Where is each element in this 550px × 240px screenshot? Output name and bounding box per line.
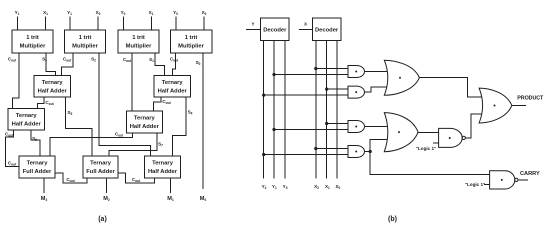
nand gate G8	[439, 128, 466, 147]
wire U6 Cout to U8	[154, 97, 162, 111]
label Cout at U9 Cin	[8, 161, 17, 167]
wire G2 out to G5	[365, 87, 390, 92]
decoder U12	[261, 18, 289, 41]
wire bus X2	[315, 41, 317, 179]
wire U1 Cout to U7	[12, 53, 19, 109]
svg-text:Y0: Y0	[121, 10, 126, 16]
wire Y2 tap to G4	[264, 154, 348, 156]
svg-text:X2: X2	[314, 184, 319, 190]
label M1	[167, 196, 174, 202]
svg-text:S2: S2	[91, 57, 96, 63]
svg-text:(a): (a)	[98, 216, 107, 223]
svg-text:Ternary: Ternary	[134, 116, 156, 122]
label S5	[67, 110, 72, 116]
junction on Y2 lower	[262, 153, 265, 156]
wire Y1 to U1	[17, 17, 19, 31]
junction on X1	[325, 88, 328, 91]
1 trit multiplier U3	[118, 30, 159, 53]
svg-text:Cout: Cout	[132, 177, 141, 183]
svg-text:Cout: Cout	[162, 99, 171, 105]
node X0 input of U2	[96, 10, 101, 16]
wire Y1 tap to G3	[274, 129, 348, 131]
wire M2 output	[106, 178, 108, 193]
svg-text:Full Adder: Full Adder	[23, 169, 52, 175]
wire X1 to U3	[151, 17, 153, 31]
wire PRODUCT out	[512, 105, 526, 107]
label Cout of U4	[170, 57, 179, 63]
svg-text:Ternary: Ternary	[42, 80, 64, 86]
1 trit multiplier U2	[65, 30, 106, 53]
ternary full adder U9	[19, 156, 55, 178]
node X1 input of U3	[149, 10, 154, 16]
node Y1 input of U1	[15, 10, 20, 16]
label Logic 1 at G9	[465, 182, 485, 187]
label Cout chain1	[66, 177, 75, 183]
svg-text:Half Adder: Half Adder	[148, 169, 178, 175]
junction G4 out	[369, 150, 372, 153]
wire G4 out to junction	[365, 151, 371, 153]
svg-text:1 trit: 1 trit	[185, 35, 198, 41]
label Cout of U7	[5, 132, 14, 138]
ternary half adder U7	[8, 109, 45, 131]
label Cout of U2	[63, 57, 72, 63]
wire U11 Cout to U10	[118, 173, 155, 183]
svg-text:Cout: Cout	[170, 57, 179, 63]
wire Y0 to U4	[175, 17, 177, 31]
wire Logic1 stub G8	[433, 142, 439, 144]
svg-text:Half Adder: Half Adder	[38, 89, 68, 95]
svg-text:X1: X1	[43, 10, 48, 16]
wire Y0 to U3	[123, 17, 125, 31]
svg-text:1 trit: 1 trit	[26, 35, 39, 41]
svg-text:Ternary: Ternary	[90, 161, 112, 167]
and gate G2	[348, 86, 365, 98]
wire U10 Cout to U9	[55, 173, 87, 183]
svg-text:1 trit: 1 trit	[132, 35, 145, 41]
wire U4 Cout to U6	[173, 53, 176, 76]
svg-text:M2: M2	[103, 196, 110, 202]
svg-text:X1: X1	[325, 184, 330, 190]
svg-text:X0: X0	[202, 10, 207, 16]
svg-text:Cout: Cout	[66, 177, 75, 183]
svg-text:Y0: Y0	[283, 184, 288, 190]
wire CARRY out	[518, 179, 528, 181]
svg-text:(b): (b)	[388, 216, 397, 223]
node X1 input of U1	[43, 10, 48, 16]
wire M1 output	[170, 178, 172, 193]
wire U3 Cout to U8	[131, 53, 133, 111]
wire U1 S3 to U5	[46, 53, 56, 76]
label X1	[325, 184, 330, 190]
svg-text:S5: S5	[67, 110, 72, 116]
node X0 input of U4	[202, 10, 207, 16]
svg-text:Cout: Cout	[8, 57, 17, 63]
svg-text:PRODUCT: PRODUCT	[517, 96, 544, 102]
svg-text:Y1: Y1	[272, 184, 277, 190]
wire G3 out to G6	[365, 126, 390, 128]
label S7	[158, 142, 163, 148]
label Cout of U1	[8, 57, 17, 63]
svg-text:Cout: Cout	[123, 57, 132, 63]
1 trit multiplier U4	[171, 30, 213, 53]
svg-text:Half Adder: Half Adder	[130, 124, 160, 130]
wire Y into decoder U12	[246, 29, 261, 31]
wire G1 out to G5	[365, 71, 390, 73]
wire junction up to G6	[370, 140, 389, 152]
svg-text:S4: S4	[188, 110, 193, 116]
wire U2 S2 to U11	[99, 53, 151, 156]
junction on X2 lower	[314, 147, 317, 150]
wire bus Y1	[273, 41, 275, 179]
wire X into decoder U13	[299, 29, 313, 31]
label S0	[196, 60, 201, 66]
wire M3 output	[43, 178, 45, 193]
junction on Y1	[272, 73, 275, 76]
label S2	[91, 57, 96, 63]
svg-text:M0: M0	[200, 196, 207, 202]
svg-text:Multiplier: Multiplier	[178, 44, 205, 50]
wire X0 to U4	[203, 17, 205, 31]
svg-text:Multiplier: Multiplier	[20, 44, 47, 50]
ternary half adder U5	[34, 76, 71, 98]
svg-text:S7: S7	[158, 142, 163, 148]
svg-text:Decoder: Decoder	[315, 28, 339, 34]
label S4	[188, 110, 193, 116]
label Cout of U5	[45, 100, 54, 106]
wire G8 out to G7	[465, 114, 483, 138]
label Cout of U8	[115, 132, 124, 138]
wire bus Y2	[263, 41, 265, 179]
svg-text:M1: M1	[167, 196, 174, 202]
ternary half adder U11	[145, 156, 181, 178]
wire U7 S6 to U9	[31, 130, 40, 156]
svg-text:X: X	[304, 22, 308, 27]
wire U8 S7 to U10	[109, 133, 157, 156]
node X input	[304, 22, 308, 27]
junction on X1 lower	[325, 122, 328, 125]
wire U8 Cout to U9	[50, 133, 133, 156]
wire bus X1	[326, 41, 328, 179]
svg-text:Multiplier: Multiplier	[126, 44, 153, 50]
ternary half adder U8	[126, 111, 162, 133]
junction on X2	[314, 67, 317, 70]
label X2	[314, 184, 319, 190]
wire Y1 tap to G1	[274, 74, 348, 76]
svg-text:X0: X0	[335, 184, 340, 190]
node Y0 input of U3	[121, 10, 126, 16]
label S6	[32, 136, 37, 142]
ternary half adder U6	[154, 76, 191, 98]
svg-text:Half Adder: Half Adder	[12, 122, 42, 128]
svg-text:Cout: Cout	[115, 132, 124, 138]
node Y0 input of U4	[173, 10, 178, 16]
svg-text:Decoder: Decoder	[263, 28, 287, 34]
junction on Y2	[262, 94, 265, 97]
svg-text:Ternary: Ternary	[27, 161, 49, 167]
and gate G3	[348, 121, 365, 133]
svg-text:Y0: Y0	[173, 10, 178, 16]
svg-text:Y1: Y1	[67, 10, 72, 16]
svg-text:Ternary: Ternary	[162, 80, 184, 86]
svg-text:Cout: Cout	[45, 100, 54, 106]
wire X1 tap to G2	[327, 88, 348, 90]
label M0	[200, 196, 207, 202]
wire U5 Cout to U7	[38, 97, 45, 109]
svg-text:Half Adder: Half Adder	[158, 89, 188, 95]
nand gate G9 CARRY	[490, 171, 518, 189]
svg-text:Cout: Cout	[8, 161, 17, 167]
svg-text:Full Adder: Full Adder	[86, 169, 115, 175]
label Cout chain2	[132, 177, 141, 183]
wire U6 S4 to U11	[173, 97, 187, 156]
label Y2	[262, 184, 267, 190]
wire Logic1 stub G9	[484, 184, 490, 186]
label Y0	[283, 184, 288, 190]
wire junction down to G9	[370, 152, 489, 175]
svg-text:Y1: Y1	[15, 10, 20, 16]
wire Y2 tap to G2	[264, 94, 348, 96]
svg-text:M3: M3	[41, 196, 48, 202]
svg-text:X1: X1	[149, 10, 154, 16]
svg-text:Cout: Cout	[63, 57, 72, 63]
svg-text:Multiplier: Multiplier	[72, 44, 99, 50]
node Y1 input of U2	[67, 10, 72, 16]
label Y1	[272, 184, 277, 190]
wire X1 tap to G3	[327, 123, 348, 125]
wire bus Y0	[284, 41, 286, 179]
wire X0 to U2	[97, 17, 99, 31]
label S1	[149, 57, 154, 63]
label M2	[103, 196, 110, 202]
svg-text:1 trit: 1 trit	[79, 35, 92, 41]
wire U3 S1 to U6	[155, 53, 165, 76]
svg-text:S0: S0	[196, 60, 201, 66]
svg-text:Y2: Y2	[262, 184, 267, 190]
1 trit multiplier U1	[12, 30, 53, 53]
wire U4 S0 to M0	[202, 53, 204, 189]
label Cout of U3	[123, 57, 132, 63]
label Logic 1 at G8	[416, 146, 436, 151]
wire U5 S5 to U10	[66, 97, 92, 156]
node Y input	[251, 22, 254, 27]
wire bus X0	[336, 41, 338, 179]
wire X2 tap to G4	[316, 148, 348, 150]
decoder U13	[313, 18, 341, 41]
wire X1 to U1	[45, 17, 47, 31]
or gate G5	[384, 60, 419, 95]
junction on Y1 lower	[272, 128, 275, 131]
svg-text:S1: S1	[149, 57, 154, 63]
label Cout of U6	[162, 99, 171, 105]
wire U7 Cout to U9 Cin	[6, 130, 20, 167]
or gate G6	[384, 113, 418, 152]
svg-text:Ternary: Ternary	[16, 113, 38, 119]
ternary full adder U10	[83, 156, 118, 178]
label S3	[42, 57, 47, 63]
svg-text:CARRY: CARRY	[520, 171, 540, 177]
label X0	[335, 184, 340, 190]
svg-text:"Logic 1": "Logic 1"	[465, 182, 485, 187]
svg-text:"Logic 1": "Logic 1"	[416, 146, 436, 151]
svg-text:X0: X0	[96, 10, 101, 16]
svg-text:S6: S6	[32, 136, 37, 142]
label M3	[41, 196, 48, 202]
wire U2 Cout to U5	[62, 53, 74, 76]
wire G6 out to G8	[418, 132, 439, 134]
or gate G7	[479, 88, 512, 123]
wire G5 out to G7	[419, 78, 483, 97]
and gate G1	[348, 66, 365, 78]
svg-text:Y: Y	[251, 22, 254, 27]
and gate G4	[348, 146, 365, 158]
wire X2 tap to G1	[316, 68, 348, 70]
wire Y1 to U2	[69, 17, 71, 31]
svg-text:Ternary: Ternary	[152, 161, 174, 167]
